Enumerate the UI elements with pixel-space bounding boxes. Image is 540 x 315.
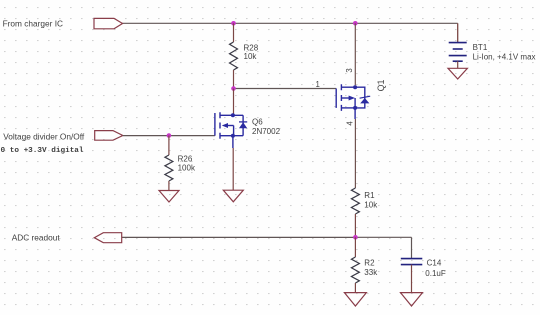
svg-text:33k: 33k: [364, 268, 378, 277]
transistor Q6: [215, 112, 247, 148]
wire ADC readout horizontal: [122, 236, 356, 238]
ground below Q6: [223, 190, 243, 202]
svg-text:ADC readout: ADC readout: [12, 233, 61, 243]
svg-text:C14: C14: [427, 259, 442, 268]
svg-text:Q6: Q6: [252, 118, 263, 127]
port ADC readout: [94, 233, 121, 243]
wire Q6 source to ground: [232, 148, 234, 190]
resistor R2: [351, 237, 359, 293]
node junction at R28 top: [231, 21, 236, 26]
ground below R2: [344, 293, 366, 306]
capacitor C14: [401, 237, 423, 293]
svg-text:BT1: BT1: [473, 43, 488, 52]
svg-text:4: 4: [346, 121, 355, 126]
node ADC junction: [353, 235, 358, 240]
svg-text:1: 1: [316, 80, 320, 89]
svg-text:2N7002: 2N7002: [252, 127, 281, 136]
wire Q1 source to R1: [354, 119, 356, 188]
resistor R26: [165, 136, 173, 191]
battery BT1: [449, 43, 467, 62]
svg-text:R1: R1: [364, 191, 375, 200]
svg-text:3: 3: [345, 68, 354, 72]
wire junction to C14: [355, 236, 411, 238]
node junction at R28 bottom / Q6 drain: [231, 86, 236, 91]
wire battery bottom lead: [457, 61, 459, 68]
svg-text:Li-Ion, +4.1V max: Li-Ion, +4.1V max: [473, 52, 536, 61]
resistor R28: [230, 23, 238, 88]
svg-text:Voltage divider On/Off: Voltage divider On/Off: [3, 132, 85, 142]
wire top rail from charger port to battery corner: [122, 22, 458, 24]
ground below R26: [159, 191, 179, 203]
svg-text:100k: 100k: [178, 164, 196, 173]
svg-text:Q1: Q1: [376, 80, 386, 92]
svg-text:R2: R2: [364, 259, 375, 268]
wire gate wire from R28 junction to Q1 gate: [234, 88, 337, 90]
wire Q1 drain pin: [354, 23, 356, 85]
ground below BT1: [448, 68, 467, 79]
wire Voltage divider to Q6 gate: [123, 135, 215, 137]
svg-text:R28: R28: [244, 43, 259, 52]
ground below C14: [401, 293, 423, 306]
transistor Q1: [336, 84, 370, 119]
node junction at Q1 drain wire: [353, 21, 358, 26]
svg-text:From charger IC: From charger IC: [3, 19, 63, 29]
node junction at R26 top: [167, 133, 172, 138]
port From charger IC: [94, 18, 123, 28]
svg-text:10k: 10k: [244, 52, 258, 61]
svg-text:10k: 10k: [364, 201, 378, 210]
wire Q6 drain wire: [233, 89, 235, 114]
svg-text:R26: R26: [178, 155, 193, 164]
wire battery drop: [457, 23, 459, 42]
svg-text:0.1uF: 0.1uF: [425, 269, 446, 278]
svg-text:0 to +3.3V digital: 0 to +3.3V digital: [1, 147, 84, 155]
port Voltage divider On/Off: [95, 131, 123, 141]
resistor R1: [351, 188, 359, 237]
